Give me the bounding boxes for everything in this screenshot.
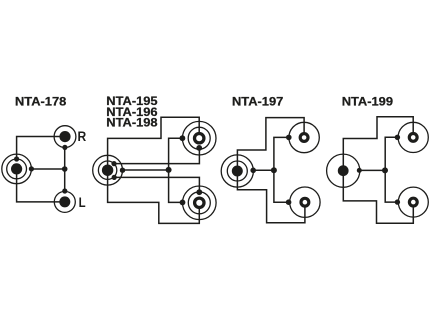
- jack J2 center contact dot: [102, 165, 113, 176]
- phono plug P1 center pin dot: [232, 166, 243, 177]
- svg-text:R: R: [78, 129, 87, 144]
- wire sleeve to bottom RCA center hole: [108, 170, 200, 223]
- wire tip to top RCA center hole: [108, 117, 200, 170]
- svg-text:NTA-198: NTA-198: [106, 116, 157, 129]
- mono plug P2 circle: [327, 154, 360, 187]
- wire plug tip to bottom RCA center hole: [237, 171, 305, 223]
- wire ground bus (vertical R-dot to L-dot): [64, 147, 66, 191]
- shield bus vertical with corners to RCA shield dots: [169, 138, 183, 202]
- svg-text:NTA-197: NTA-197: [232, 95, 283, 108]
- bottom RCA socket circle: [398, 187, 428, 217]
- jack J1 tip contact dot: [14, 156, 19, 161]
- junction node (ring to bus): [62, 166, 68, 172]
- jack J2 lower contact dot: [112, 175, 117, 180]
- title NTA-198: [106, 116, 157, 129]
- top RCA center hole: [300, 134, 308, 142]
- bottom RCA socket center hole: [195, 198, 204, 207]
- wire sleeve to shield bus: [359, 169, 385, 171]
- bottom RCA socket outer circle: [183, 186, 217, 220]
- jack socket J2 outer circle: [93, 155, 123, 185]
- jack socket J1 outer circle: [2, 154, 32, 184]
- bottom RCA center hole: [301, 198, 309, 206]
- phono plug P1 inner circle: [227, 161, 247, 181]
- title NTA-195: [106, 95, 157, 108]
- junction node on shield bus: [166, 167, 172, 173]
- bottom RCA socket middle circle: [188, 192, 210, 214]
- title NTA-178: [15, 95, 66, 108]
- phono socket R center dot: [59, 131, 70, 142]
- top RCA socket center hole: [195, 134, 204, 143]
- phono plug P1 sleeve dot: [250, 168, 256, 174]
- wire plug sleeve to shield bus: [253, 169, 274, 171]
- bottom RCA signal dot: [196, 189, 202, 195]
- wire sleeve-to-L (down from jack center, right to L center): [17, 169, 65, 202]
- mono plug P2 center pin dot: [338, 165, 349, 176]
- jack J2 inner circle: [98, 161, 116, 179]
- bottom RCA socket circle: [290, 187, 320, 217]
- title NTA-197: [232, 95, 283, 108]
- wire tip-to-R (up from jack, right to R center): [17, 137, 65, 160]
- svg-text:NTA-178: NTA-178: [15, 95, 66, 108]
- wire ring-L to bottom RCA ground dot: [114, 177, 199, 192]
- wire jack sleeve to shield bus: [123, 169, 169, 171]
- wire ring-R to top RCA ground dot: [114, 148, 199, 164]
- wire pin to top RCA center hole: [343, 117, 413, 171]
- top RCA shield dot: [395, 135, 400, 140]
- jack J1 inner circle: [7, 159, 27, 179]
- junction node on shield bus: [271, 167, 277, 173]
- shield bus vertical with corners to RCA shield dots: [385, 137, 397, 202]
- bottom RCA center hole: [409, 198, 417, 206]
- phono socket R outer circle: [54, 126, 76, 148]
- top RCA socket middle circle: [188, 127, 210, 149]
- bottom RCA shield dot: [395, 199, 400, 204]
- title NTA-196: [106, 105, 157, 118]
- jack J2 upper contact dot: [111, 161, 116, 166]
- phono socket L center dot: [59, 196, 70, 207]
- jack J1 center contact dot: [11, 163, 22, 174]
- mono plug P2 sleeve dot: [357, 168, 362, 173]
- top RCA center hole: [409, 134, 417, 142]
- title NTA-199: [342, 95, 393, 108]
- jack J2 sleeve contact dot: [120, 168, 125, 173]
- wire plug tip to top RCA center hole: [237, 118, 304, 171]
- top RCA shield dot: [286, 135, 292, 141]
- shield bus vertical with corners to RCA shield dots: [274, 137, 289, 202]
- phono socket L ground dot: [62, 188, 67, 193]
- wire pin to bottom RCA center hole: [343, 171, 413, 224]
- phono plug P1 outer circle: [221, 155, 253, 187]
- phono socket R ground dot: [62, 145, 67, 150]
- wire ring-to-bus (horizontal): [31, 168, 64, 170]
- top RCA socket circle: [289, 122, 319, 152]
- bottom RCA shield dot: [286, 199, 292, 205]
- bottom RCA shield dot: [180, 200, 186, 206]
- jack J1 sleeve contact dot: [29, 166, 34, 171]
- top RCA signal dot: [196, 145, 202, 151]
- phono socket L outer circle: [54, 191, 75, 212]
- top RCA shield dot: [180, 135, 186, 141]
- top RCA socket circle: [398, 122, 428, 152]
- top RCA socket outer circle: [182, 121, 216, 155]
- svg-text:L: L: [79, 195, 86, 210]
- svg-text:NTA-199: NTA-199: [342, 95, 393, 108]
- junction node on shield bus: [382, 167, 388, 173]
